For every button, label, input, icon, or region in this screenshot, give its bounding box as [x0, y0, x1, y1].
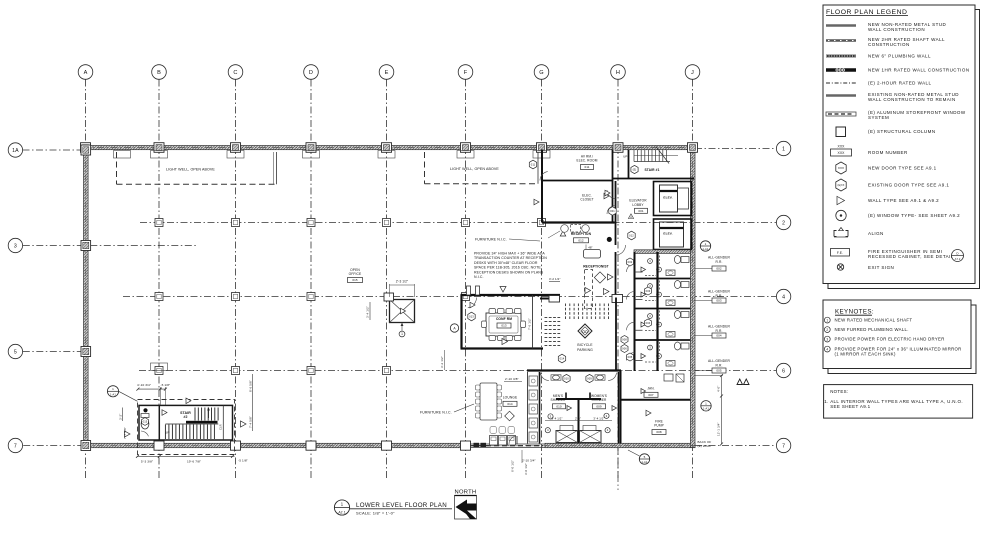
showers east wall [618, 372, 620, 444]
columns on bottom wall [154, 441, 164, 450]
storefront segment [468, 443, 545, 445]
legend item 6: existing non-rated [826, 94, 856, 96]
jan fixtures [664, 374, 673, 381]
reception east wall [615, 223, 617, 246]
column capitals below top wall [114, 151, 131, 159]
svg-text:7'-6 1/2": 7'-6 1/2" [528, 318, 532, 330]
svg-text:3'-4 1/2": 3'-4 1/2" [551, 416, 562, 420]
bike area north walls/columns [549, 296, 560, 303]
svg-text:XXX: XXX [838, 166, 844, 170]
legend item 5: (E) 2-hour [826, 82, 856, 84]
elevator car 1 [660, 185, 678, 212]
svg-text:011: 011 [584, 165, 589, 169]
svg-text:LIGHT WELL, OPEN ABOVE: LIGHT WELL, OPEN ABOVE [450, 167, 499, 171]
stair 2 lower flight treads [164, 425, 166, 440]
svg-text:UP: UP [623, 154, 627, 158]
svg-text:ELEV.: ELEV. [663, 195, 672, 199]
svg-text:WALL CONSTRUCTION: WALL CONSTRUCTION [868, 27, 925, 32]
dark benches [474, 443, 480, 447]
lockers along south wall [490, 436, 498, 446]
svg-text:4: 4 [826, 347, 828, 351]
svg-text:3: 3 [14, 244, 17, 250]
legend item 13: window type [836, 210, 846, 220]
shower sinks [553, 375, 560, 380]
svg-text:3'-0 1/2": 3'-0 1/2" [524, 463, 528, 475]
svg-text:A2.1: A2.1 [338, 511, 345, 515]
svg-text:4'-10 3/4": 4'-10 3/4" [137, 383, 151, 387]
svg-text:1-A1: 1-A1 [703, 247, 709, 251]
svg-text:7: 7 [782, 444, 785, 450]
svg-text:ALL-GENDER: ALL-GENDER [708, 290, 731, 294]
legend item 10: new door [836, 162, 846, 174]
svg-text:PROVIDE POWER FOR ELECTRIC HAN: PROVIDE POWER FOR ELECTRIC HAND DRYER [835, 337, 945, 342]
svg-text:015: 015 [143, 419, 148, 423]
AV room west wall [541, 150, 543, 223]
legend item 16: exit sign [837, 264, 843, 270]
bicycle parking diamond [578, 324, 592, 338]
stair 1 label [631, 165, 638, 173]
stair triangles [186, 398, 191, 404]
svg-text:009: 009 [596, 404, 602, 408]
reception desk [584, 250, 601, 259]
svg-text:1-A1: 1-A1 [703, 407, 709, 411]
svg-text:SYSTEM: SYSTEM [868, 115, 889, 120]
stair 2 dims top [138, 388, 166, 390]
wc exit dot [144, 409, 148, 413]
svg-text:008: 008 [622, 337, 627, 341]
legend item 3: 6in plumbing [826, 55, 856, 58]
svg-text:1: 1 [826, 318, 828, 322]
north arrow [455, 496, 477, 520]
svg-text:010: 010 [564, 376, 569, 380]
svg-text:A7.2: A7.2 [955, 257, 961, 261]
legend shadow box [828, 10, 980, 289]
svg-text:004: 004 [716, 334, 722, 338]
svg-text:FURNITURE N.I.C.: FURNITURE N.I.C. [475, 237, 507, 241]
svg-text:012: 012 [629, 233, 634, 237]
svg-text:1A: 1A [12, 148, 19, 154]
svg-text:3: 3 [826, 337, 828, 341]
circle A tag [450, 324, 458, 332]
svg-text:OFFICE: OFFICE [349, 272, 362, 276]
svg-text:A: A [84, 70, 88, 76]
svg-text:(E) WINDOW TYPE- SEE SHEET A9.: (E) WINDOW TYPE- SEE SHEET A9.2 [868, 213, 960, 218]
wall below elevators (hatched) [634, 250, 691, 254]
svg-text:1: 1 [705, 242, 707, 246]
svg-text:2: 2 [782, 221, 785, 227]
svg-text:6'-0 1/2": 6'-0 1/2" [511, 460, 515, 472]
bottom exterior wall [84, 443, 469, 447]
keynote 1 at shaft [399, 331, 405, 337]
shower door arcs [541, 373, 550, 381]
AV room south wall [542, 180, 613, 182]
svg-text:003: 003 [716, 299, 722, 303]
AV door arc [540, 172, 548, 181]
svg-text:(1 MIRROR AT EACH SINK): (1 MIRROR AT EACH SINK) [835, 352, 896, 357]
reception chairs [561, 225, 569, 233]
svg-text:CLR: CLR [219, 424, 223, 430]
showers center wall [578, 399, 580, 444]
svg-text:ELEV.: ELEV. [663, 231, 672, 235]
shower keynotes [548, 414, 553, 419]
row grid lines + bubbles [23, 149, 85, 151]
svg-text:SEE SHEET A9.1: SEE SHEET A9.1 [830, 404, 870, 409]
svg-text:NEW 6" PLUMBING WALL: NEW 6" PLUMBING WALL [868, 54, 931, 59]
svg-text:(E) WALL: (E) WALL [698, 444, 712, 448]
shower hexagons [563, 374, 570, 382]
detail tag fire pump [701, 401, 711, 411]
RR plumbing wall spine [656, 252, 658, 371]
column grid lines [85, 80, 87, 479]
svg-text:001: 001 [638, 209, 644, 213]
conf hexagon [468, 312, 475, 321]
svg-text:STAIR #1: STAIR #1 [644, 168, 659, 172]
svg-text:7'-7 5/8": 7'-7 5/8" [123, 427, 127, 439]
svg-text:TRANSACTION COUNTER AT RECEPTI: TRANSACTION COUNTER AT RECEPTION [474, 256, 547, 260]
stair 1 south wall [613, 178, 695, 180]
svg-text:010: 010 [556, 404, 562, 408]
elevator car 2 [660, 222, 684, 247]
stair 2 dims right rotated [252, 374, 254, 431]
detail tag below showers [639, 454, 649, 464]
svg-text:014: 014 [507, 402, 513, 406]
svg-text:012: 012 [578, 238, 584, 242]
svg-text:3'-2": 3'-2" [119, 414, 123, 420]
svg-text:2'-10 3/8": 2'-10 3/8" [505, 377, 519, 381]
stair 2 upper flight rail bar [186, 421, 218, 424]
svg-text:CLOSET: CLOSET [580, 198, 593, 202]
svg-text:SHOWER: SHOWER [551, 398, 567, 402]
svg-text:DESKS WITH 30"x48" CLEAR FLOOR: DESKS WITH 30"x48" CLEAR FLOOR [474, 261, 538, 265]
svg-text:7: 7 [14, 444, 17, 450]
stair 1 west wall [628, 150, 630, 179]
svg-text:RECEPTION DESKS SHOWN ON PLANS: RECEPTION DESKS SHOWN ON PLANS [474, 270, 544, 274]
svg-text:(E) 2-HOUR RATED WALL: (E) 2-HOUR RATED WALL [868, 81, 932, 86]
svg-text:3'-4 1/2": 3'-4 1/2" [366, 306, 370, 318]
wc fixture [141, 419, 149, 429]
interior columns row 6 [155, 367, 163, 375]
svg-text:JAN.: JAN. [647, 386, 654, 390]
svg-text:FURNITURE N.I.C.: FURNITURE N.I.C. [420, 411, 452, 415]
stair 2 wc divider wall [158, 405, 160, 440]
legend item 15: fire extinguisher [831, 249, 850, 257]
svg-text:H: H [616, 70, 620, 76]
svg-text:NEW RATED MECHANICAL SHAFT: NEW RATED MECHANICAL SHAFT [835, 318, 913, 323]
svg-text:-5 1/8": -5 1/8" [238, 458, 248, 462]
svg-text:002: 002 [716, 267, 722, 271]
svg-text:C: C [233, 70, 237, 76]
svg-text:002: 002 [628, 260, 633, 264]
svg-text:(E) STRUCTURAL COLUMN: (E) STRUCTURAL COLUMN [868, 129, 936, 134]
AV door hexagon [529, 160, 536, 169]
svg-text:ALL-GENDER: ALL-GENDER [708, 256, 731, 260]
stair 2 dashed enclosure [138, 400, 235, 455]
svg-text:-5 1/8": -5 1/8" [161, 383, 171, 387]
svg-text:5: 5 [14, 350, 17, 356]
svg-text:013: 013 [501, 324, 507, 328]
legend item 11: existing door [836, 179, 846, 191]
svg-text:R.R.: R.R. [716, 294, 723, 298]
svg-text:ALL-GENDER: ALL-GENDER [708, 325, 731, 329]
legend item 8: structural column [836, 127, 846, 137]
svg-text:005: 005 [716, 369, 722, 373]
svg-text:NEW 1HR RATED WALL CONSTRUCTIO: NEW 1HR RATED WALL CONSTRUCTION [868, 68, 970, 73]
reception north wall (row2) [542, 221, 615, 223]
lobby west wall [615, 181, 617, 223]
columns on left wall [81, 145, 91, 155]
svg-text:XXX: XXX [837, 145, 845, 149]
shower stalls [556, 431, 578, 443]
svg-text:EXIT SIGN: EXIT SIGN [868, 265, 894, 270]
svg-text:LOBBY: LOBBY [632, 203, 644, 207]
AV-elec east wall [612, 150, 614, 223]
legend item 1: new non-rated [826, 24, 856, 27]
detail tag right of RR002 [700, 241, 710, 251]
wc hexagon [142, 418, 149, 426]
svg-text:3'-2 1/2": 3'-2 1/2" [549, 277, 560, 281]
hexagon 014 north of showers [558, 354, 565, 363]
top exterior wall [84, 146, 696, 150]
stair 2 dims left rotated [122, 408, 124, 422]
svg-text:014: 014 [560, 356, 565, 360]
svg-text:PARKING: PARKING [577, 348, 593, 352]
jan fire pump west wall [620, 371, 622, 444]
svg-text:R.R.: R.R. [716, 329, 723, 333]
svg-text:F: F [464, 70, 468, 76]
wc door arc [141, 431, 149, 436]
svg-text:(E)XX: (E)XX [838, 184, 845, 187]
light well 2 dashed outline [424, 152, 426, 184]
showers west wall [539, 372, 541, 444]
conf wall triangles [500, 287, 506, 293]
stair 1 treads [633, 150, 635, 162]
ghost chairs above lockers [490, 427, 497, 434]
light well 1 dashed outline [116, 152, 118, 184]
svg-text:D: D [309, 70, 313, 76]
showers mid horizontal wall [556, 398, 601, 400]
wall stub south of reception [540, 298, 560, 300]
right exterior wall [690, 146, 695, 448]
svg-text:LOUNGE: LOUNGE [503, 396, 518, 400]
conference room walls [461, 294, 561, 296]
svg-text:5'-3 3/8": 5'-3 3/8" [141, 459, 153, 463]
svg-text:FLOOR PLAN LEGEND: FLOOR PLAN LEGEND [826, 9, 907, 16]
svg-text:1: 1 [782, 147, 785, 153]
stair 2 room walls [139, 405, 233, 440]
svg-text:1-A1: 1-A1 [642, 460, 648, 464]
svg-text:CONF RM: CONF RM [496, 317, 512, 321]
svg-text:NEW FURRED PLUMBING WALL.: NEW FURRED PLUMBING WALL. [835, 327, 909, 332]
svg-text:SCALE: 1/8" = 1'-0": SCALE: 1/8" = 1'-0" [356, 511, 395, 516]
svg-text:STAIR: STAIR [180, 411, 191, 415]
svg-text:2'-8": 2'-8" [575, 416, 581, 420]
svg-text:ELEC. ROOM: ELEC. ROOM [576, 159, 597, 163]
fire pump north wall [621, 399, 691, 401]
svg-text:12'-1 3/4": 12'-1 3/4" [717, 422, 721, 436]
svg-text:1: 1 [401, 332, 403, 336]
svg-text:7'-4 5/8": 7'-4 5/8" [248, 416, 252, 428]
svg-text:1: 1 [112, 387, 114, 391]
svg-text:PUMP: PUMP [654, 424, 664, 428]
stair 2 upper flight treads [194, 408, 196, 421]
bike rack hatch group B [545, 317, 548, 319]
svg-text:005: 005 [628, 355, 633, 359]
svg-text:3'-2 1/2": 3'-2 1/2" [440, 356, 444, 368]
shaft dims [390, 284, 415, 286]
legend main box [823, 5, 975, 284]
svg-text:SHOWER: SHOWER [592, 398, 608, 402]
svg-text:1: 1 [705, 402, 707, 406]
exit dot [607, 237, 611, 241]
svg-text:6: 6 [782, 369, 785, 375]
legend item 2: 2hr shaft [826, 39, 856, 41]
stair 2 detail tag [107, 386, 118, 397]
svg-text:5: 5 [644, 455, 646, 459]
conf door arc [468, 298, 477, 308]
elevator shaft walls [654, 182, 692, 216]
double triangle align [737, 379, 749, 385]
svg-text:ALIGN: ALIGN [868, 231, 884, 236]
svg-text:XXX: XXX [837, 151, 845, 155]
stair 2 rail line [165, 423, 218, 425]
reception door arc [616, 245, 625, 255]
bike rack hatch group A [565, 304, 567, 307]
columns on top wall [81, 143, 91, 153]
svg-text:G: G [539, 70, 543, 76]
lobby door arcs [607, 190, 616, 199]
svg-text:2'-10 3/4": 2'-10 3/4" [522, 459, 536, 463]
svg-text:2'-3 1/2": 2'-3 1/2" [396, 280, 409, 284]
RR fixtures and doors [681, 257, 689, 263]
stair 2 upper flight arrow [208, 409, 210, 418]
RR block west wall [634, 252, 636, 371]
svg-text:4'-0": 4'-0" [717, 386, 721, 392]
svg-text:PROVIDE 34" HIGH MAX + 36" WID: PROVIDE 34" HIGH MAX + 36" WIDE ADA [474, 252, 545, 256]
legend item 14: align [834, 228, 848, 238]
keynotes main box [823, 300, 971, 369]
shower dims [545, 420, 612, 422]
svg-text:R.R.: R.R. [716, 260, 723, 264]
RR hexagons [627, 258, 634, 266]
svg-text:SPACE PER 11B-305, 2016 CBC. N: SPACE PER 11B-305, 2016 CBC. NOTE: [474, 266, 542, 270]
legend item 4: 1hr rated [826, 68, 856, 71]
svg-text:WALL TYPE SEE A9.1 & A9.2: WALL TYPE SEE A9.1 & A9.2 [868, 198, 939, 203]
stair 2 right double wall [222, 405, 224, 440]
svg-text:N.I.C.: N.I.C. [474, 275, 484, 279]
svg-text:013: 013 [469, 314, 474, 318]
svg-text:RECESSED CABINET, SEE DETAIL: RECESSED CABINET, SEE DETAIL [868, 254, 954, 259]
keynotes shadow box [828, 305, 976, 374]
showers row6 north wall [527, 369, 621, 371]
mechanical shaft E4 [390, 300, 415, 323]
stair 2 dims bottom [138, 455, 235, 457]
shaft column E4 [384, 293, 394, 301]
interior columns row 4 [155, 293, 163, 301]
svg-text:ALL-GENDER: ALL-GENDER [708, 359, 731, 363]
svg-text:009: 009 [587, 376, 592, 380]
svg-text:LOWER LEVEL FLOOR PLAN: LOWER LEVEL FLOOR PLAN [356, 502, 447, 509]
wall centerlines [84, 147, 696, 149]
column grid bubbles A-J [78, 65, 93, 80]
svg-text:011: 011 [531, 162, 536, 166]
svg-text:001: 001 [610, 209, 615, 213]
svg-text:NOTES:: NOTES: [830, 389, 848, 394]
svg-text:004: 004 [646, 321, 651, 325]
title tag circle [334, 500, 349, 515]
title text [350, 508, 452, 510]
svg-text:KEYNOTES:: KEYNOTES: [835, 308, 874, 315]
lounge table [480, 383, 497, 420]
svg-text:B: B [157, 70, 161, 76]
svg-text:ROOM NUMBER: ROOM NUMBER [868, 150, 908, 155]
svg-text:1.: 1. [824, 399, 828, 404]
entry door arc [509, 436, 516, 444]
svg-text:RECEPTION: RECEPTION [571, 232, 592, 236]
notes box [824, 385, 973, 419]
conference table [486, 313, 521, 336]
svg-text:EXISTING DOOR TYPE SEE A9.1: EXISTING DOOR TYPE SEE A9.1 [868, 183, 949, 188]
svg-text:NEW DOOR TYPE SEE A9.1: NEW DOOR TYPE SEE A9.1 [868, 166, 937, 171]
svg-text:48": 48" [588, 245, 593, 249]
svg-text:BICYCLE: BICYCLE [577, 343, 593, 347]
lounge diamond tag [505, 411, 515, 421]
svg-text:4: 4 [782, 295, 785, 301]
legend item 7: storefront [826, 112, 856, 116]
interior columns row 2 [155, 219, 163, 227]
conf door jamb [467, 286, 471, 295]
svg-text:015: 015 [352, 278, 358, 282]
RR dividers [635, 278, 691, 280]
svg-text:WALL CONSTRUCTION TO REMAIN: WALL CONSTRUCTION TO REMAIN [868, 97, 956, 102]
svg-text:#2: #2 [183, 415, 187, 419]
svg-text:3'-4 1/2": 3'-4 1/2" [593, 416, 604, 420]
svg-text:CONSTRUCTION: CONSTRUCTION [868, 42, 910, 47]
svg-text:008: 008 [656, 430, 662, 434]
receptionist dashed clear floor [585, 270, 593, 309]
svg-text:LIGHT WELL, OPEN ABOVE: LIGHT WELL, OPEN ABOVE [166, 167, 215, 171]
legend item 12: wall type [837, 196, 845, 204]
svg-text:007: 007 [648, 393, 654, 397]
svg-text:NORTH: NORTH [454, 490, 476, 496]
fire pump dim [721, 376, 723, 445]
svg-text:RECEPTIONIST: RECEPTIONIST [583, 265, 609, 269]
svg-text:R.R.: R.R. [716, 363, 723, 367]
svg-text:003: 003 [646, 289, 651, 293]
conf chairs [489, 309, 496, 314]
grid H dashed through showers [617, 448, 619, 490]
lockers strip west [527, 372, 529, 444]
corridor wall west of RR block [615, 298, 617, 372]
svg-text:F.E.: F.E. [837, 251, 843, 255]
svg-text:1-A1: 1-A1 [110, 393, 116, 397]
svg-text:006: 006 [622, 346, 627, 350]
svg-text:UP: UP [165, 431, 170, 435]
svg-text:19'-6 7/8": 19'-6 7/8" [187, 459, 201, 463]
svg-text:E: E [385, 70, 389, 76]
svg-text:8'-6 5/8": 8'-6 5/8" [248, 380, 252, 392]
svg-text:(E): (E) [633, 167, 637, 171]
left exterior wall [84, 146, 89, 448]
svg-text:2: 2 [826, 328, 828, 332]
svg-text:J: J [691, 70, 694, 76]
